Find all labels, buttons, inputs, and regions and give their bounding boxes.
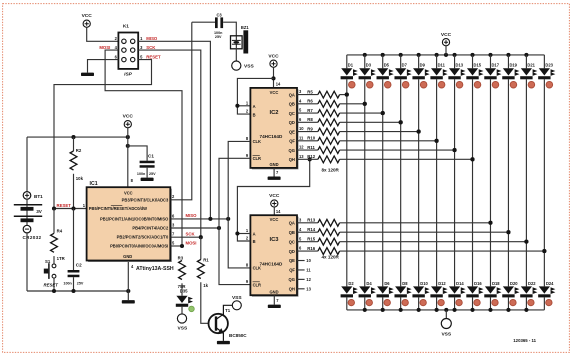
wire K1 pin 6 to ground bbox=[88, 60, 119, 73]
svg-text:D4: D4 bbox=[366, 281, 372, 286]
svg-text:VCC: VCC bbox=[268, 53, 279, 59]
LED D6 (red, bottom row) bbox=[377, 281, 394, 310]
ground (T1 emitter) bbox=[217, 341, 230, 344]
buzzer BZ1 (piezo) bbox=[231, 25, 250, 53]
svg-text:PB0/PCINT0/AIN0/OC0A/MOSI: PB0/PCINT0/AIN0/OC0A/MOSI bbox=[110, 244, 168, 249]
power VSS (D35) bbox=[177, 314, 188, 332]
svg-text:D12: D12 bbox=[438, 281, 446, 286]
svg-text:10: 10 bbox=[306, 258, 311, 263]
wire VCC rail (battery + to IC1 pin 8) bbox=[27, 135, 130, 148]
wire CLK bus (IC2 pin8 / IC3 pin8) bbox=[228, 141, 250, 268]
svg-text:PB3/PCINT3/CLKI/ADC3: PB3/PCINT3/CLKI/ADC3 bbox=[122, 197, 169, 202]
wire SCK net: K1 pin3 down to IC1 PB2 row bbox=[138, 50, 201, 237]
svg-text:R6: R6 bbox=[307, 99, 313, 104]
svg-text:D21: D21 bbox=[527, 63, 535, 68]
svg-text:T1: T1 bbox=[225, 308, 231, 313]
IC1 pin numbers bbox=[131, 178, 175, 269]
wire R12 to LED column 8 bbox=[340, 157, 475, 161]
svg-text:IC2: IC2 bbox=[269, 110, 278, 116]
LED D23 (red, top row) bbox=[538, 55, 555, 88]
svg-text:12: 12 bbox=[306, 277, 311, 282]
LED D15 (red, top row) bbox=[466, 55, 483, 88]
svg-text:D2: D2 bbox=[348, 281, 354, 286]
svg-text:QG: QG bbox=[289, 277, 295, 282]
wire VCC top bus bbox=[347, 53, 545, 57]
svg-text:74HC164D: 74HC164D bbox=[260, 134, 283, 139]
wire cascade IC2 QH to IC3 A/B bbox=[235, 157, 311, 241]
svg-text:D35: D35 bbox=[180, 288, 188, 293]
ground (IC2 pin 7) bbox=[268, 177, 281, 180]
svg-text:D16: D16 bbox=[474, 281, 482, 286]
LED D11 (red, top row) bbox=[430, 55, 447, 88]
op IC1 ATtiny13A-SSH bbox=[87, 181, 174, 272]
svg-text:R15: R15 bbox=[307, 236, 315, 241]
svg-text:D17: D17 bbox=[491, 63, 499, 68]
capacitor C2 100n 25V (reset) bbox=[63, 209, 84, 292]
resistor R12 120R bbox=[297, 154, 340, 163]
svg-text:D19: D19 bbox=[509, 63, 517, 68]
svg-text:25V: 25V bbox=[149, 172, 156, 176]
svg-text:R2: R2 bbox=[76, 148, 82, 153]
LED D10 (red, bottom row) bbox=[412, 281, 429, 310]
svg-text:VCC: VCC bbox=[270, 217, 279, 222]
switch S1 RESET (pushbutton) bbox=[44, 259, 59, 291]
power VCC (top left, ISP supply) bbox=[82, 13, 93, 27]
svg-text:1TR: 1TR bbox=[57, 256, 66, 261]
capacitor C3 100n 25V bbox=[192, 13, 223, 39]
svg-text:QH: QH bbox=[289, 287, 295, 292]
svg-text:R8: R8 bbox=[307, 117, 313, 122]
wire LED column 11 bbox=[524, 79, 528, 286]
resistor R8 120R bbox=[297, 117, 340, 126]
resistor R15 120R bbox=[297, 236, 340, 245]
svg-text:D5: D5 bbox=[384, 63, 390, 68]
LED D4 (red, bottom row) bbox=[359, 281, 376, 310]
LED D17 (red, top row) bbox=[484, 55, 501, 88]
wire IC1 GND pin 4 bbox=[127, 261, 129, 301]
svg-text:R9: R9 bbox=[307, 126, 313, 131]
svg-text:ATtiny13A-SSH: ATtiny13A-SSH bbox=[136, 266, 174, 272]
svg-text:QF: QF bbox=[289, 139, 295, 144]
wire RESET to IC1 pin 1 bbox=[52, 206, 87, 210]
wire R13 to LED column 9 bbox=[340, 221, 493, 225]
wire LED column 6 bbox=[435, 79, 439, 286]
wire VCC to K1 pin 2 bbox=[87, 27, 119, 41]
svg-text:QD: QD bbox=[289, 120, 295, 125]
svg-text:MOSI: MOSI bbox=[186, 241, 197, 246]
svg-text:QB: QB bbox=[289, 102, 295, 107]
wire CLR bus (IC2 pin9 / IC3 pin9) bbox=[219, 158, 250, 284]
svg-text:R3: R3 bbox=[178, 255, 184, 260]
ground (IC1 pin 4) bbox=[122, 300, 135, 303]
svg-text:R11: R11 bbox=[307, 145, 315, 150]
svg-text:8x 120R: 8x 120R bbox=[322, 168, 340, 173]
svg-text:VSS: VSS bbox=[244, 64, 254, 70]
svg-text:R10: R10 bbox=[307, 136, 315, 141]
LED D8 (red, bottom row) bbox=[394, 281, 411, 310]
svg-text:GND: GND bbox=[269, 290, 278, 295]
LED D35 (green indicator) bbox=[176, 288, 195, 314]
LED D16 (red, bottom row) bbox=[466, 281, 483, 310]
LED D21 (red, top row) bbox=[520, 55, 537, 88]
svg-text:CLR: CLR bbox=[253, 282, 261, 287]
svg-text:GND: GND bbox=[269, 162, 278, 167]
svg-text:C1: C1 bbox=[148, 154, 154, 159]
svg-text:A: A bbox=[253, 104, 256, 109]
wire IC1 PB2 (pin 7) to R1 bbox=[170, 235, 203, 239]
wire LED column 1 bbox=[345, 79, 349, 286]
svg-text:R16: R16 bbox=[307, 246, 315, 251]
resistor R14 120R bbox=[297, 227, 340, 236]
wire IC3 GND pin 7 bbox=[273, 295, 275, 304]
power VSS (T1 collector) bbox=[232, 295, 242, 310]
wire IC2 A/B tie to VCC bbox=[235, 78, 273, 114]
battery BT1 CR2032 3V bbox=[14, 137, 43, 291]
svg-text:3V: 3V bbox=[36, 209, 43, 214]
LED D19 (red, top row) bbox=[502, 55, 519, 88]
wire R7 to LED column 3 bbox=[340, 111, 385, 115]
svg-text:D18: D18 bbox=[492, 281, 500, 286]
LED D24 (red, bottom row) bbox=[538, 281, 555, 310]
svg-text:13: 13 bbox=[299, 154, 304, 159]
power VCC (LED matrix) bbox=[441, 32, 452, 55]
wire LED column 5 bbox=[417, 79, 421, 286]
wire VSS bottom bus bbox=[347, 308, 545, 312]
ground (K1 pin 6) bbox=[81, 73, 94, 76]
wire MOSI net: K1 pin4 down to IC1 PB0 row bbox=[105, 50, 182, 246]
resistor R7 120R bbox=[297, 108, 340, 117]
svg-text:14: 14 bbox=[276, 209, 281, 214]
svg-text:K1: K1 bbox=[123, 23, 129, 29]
svg-text:BT1: BT1 bbox=[34, 194, 43, 199]
svg-text:CLK: CLK bbox=[253, 139, 261, 144]
wire VCC symbol to IC1 pin 8 bbox=[127, 128, 129, 187]
svg-text:VCC: VCC bbox=[123, 114, 134, 120]
svg-text:QA: QA bbox=[289, 92, 295, 97]
wire R9 to LED column 5 bbox=[340, 130, 421, 134]
power VCC (IC3) bbox=[269, 193, 280, 207]
svg-text:11: 11 bbox=[299, 135, 304, 140]
svg-text:4x 120R: 4x 120R bbox=[322, 255, 340, 260]
svg-text:QC: QC bbox=[289, 111, 295, 116]
wire C3 to buzzer bbox=[223, 22, 236, 36]
svg-text:11: 11 bbox=[306, 268, 311, 273]
svg-text:CLR: CLR bbox=[253, 156, 261, 161]
svg-text:10: 10 bbox=[299, 126, 304, 131]
resistor R1 1k (T1 base) bbox=[197, 237, 209, 288]
resistor R16 120R bbox=[297, 246, 340, 255]
svg-text:120365 - 11: 120365 - 11 bbox=[513, 338, 536, 343]
LED D18 (red, bottom row) bbox=[484, 281, 501, 310]
LED D1 (red, top row) bbox=[341, 55, 358, 88]
svg-text:R1: R1 bbox=[203, 257, 209, 262]
svg-text:RESET: RESET bbox=[146, 55, 161, 60]
LED D14 (red, bottom row) bbox=[448, 281, 465, 310]
svg-text:12: 12 bbox=[299, 145, 304, 150]
LED D9 (red, top row) bbox=[412, 55, 429, 88]
wire IC1 PB4 (pin 3) to clear bus bbox=[170, 226, 221, 230]
svg-text:R4: R4 bbox=[57, 229, 63, 234]
svg-text:PB5/PCINT5/RESET/ADC0/dW: PB5/PCINT5/RESET/ADC0/dW bbox=[89, 206, 147, 211]
wire R10 to LED column 6 bbox=[340, 139, 439, 143]
LED D3 (red, top row) bbox=[359, 55, 376, 88]
svg-text:CR2032: CR2032 bbox=[23, 235, 42, 240]
resistor R5 120R bbox=[297, 89, 340, 98]
op IC3 74HC164D shift register bbox=[250, 215, 298, 297]
resistor R11 120R bbox=[297, 145, 340, 154]
power VCC (above IC1) bbox=[123, 114, 134, 128]
svg-text:D8: D8 bbox=[402, 281, 408, 286]
svg-text:VCC: VCC bbox=[270, 90, 279, 95]
resistor R10 120R bbox=[297, 136, 340, 145]
resistor R4 1TR (reset series) bbox=[51, 209, 66, 264]
ground (C1) bbox=[141, 178, 154, 181]
power VSS (LED matrix) bbox=[441, 310, 452, 337]
svg-text:PB1/PCINT1/AIN1/OC0B/INT0/MISO: PB1/PCINT1/AIN1/OC0B/INT0/MISO bbox=[100, 216, 169, 221]
ground (IC3 pin 7) bbox=[268, 305, 281, 308]
LED D12 (red, bottom row) bbox=[430, 281, 447, 310]
power VCC (IC2) bbox=[268, 53, 279, 67]
svg-text:BC850C: BC850C bbox=[229, 333, 247, 338]
svg-text:D20: D20 bbox=[510, 281, 518, 286]
wire IC1 PB0 (pin 5) to R3 bbox=[170, 244, 184, 248]
svg-text:D9: D9 bbox=[420, 63, 426, 68]
svg-text:B: B bbox=[253, 239, 256, 244]
svg-text:VCC: VCC bbox=[82, 13, 93, 19]
wire IC1 PB1 (pin 6) to shift clock bus bbox=[170, 217, 230, 221]
svg-text:R12: R12 bbox=[307, 154, 315, 159]
svg-text:PB4/PCINT4/ADC2: PB4/PCINT4/ADC2 bbox=[132, 226, 169, 231]
svg-text:74HC164D: 74HC164D bbox=[260, 262, 283, 267]
resistor R6 120R bbox=[297, 99, 340, 108]
svg-text:D7: D7 bbox=[402, 63, 408, 68]
power VSS (buzzer) bbox=[232, 61, 255, 70]
wire R5 to LED column 1 bbox=[340, 93, 349, 97]
IC2 pin numbers bbox=[246, 81, 304, 174]
wire RESET net: K1 pin5 to reset rail bbox=[54, 60, 152, 209]
wire R11 to LED column 7 bbox=[340, 148, 457, 152]
svg-text:VCC: VCC bbox=[441, 32, 452, 38]
wire LED column 7 bbox=[453, 79, 457, 286]
svg-text:14: 14 bbox=[276, 81, 281, 86]
wire IC2 pin 14 supply bbox=[271, 67, 275, 88]
svg-text:D14: D14 bbox=[456, 281, 464, 286]
svg-text:R14: R14 bbox=[307, 227, 315, 232]
wire buzzer to VSS bbox=[235, 49, 237, 61]
svg-text:VCC: VCC bbox=[124, 191, 133, 196]
svg-text:D3: D3 bbox=[366, 63, 372, 68]
svg-text:QG: QG bbox=[289, 148, 295, 153]
resistor R9 120R bbox=[297, 126, 340, 135]
svg-text:C2: C2 bbox=[76, 263, 82, 268]
svg-text:MISO: MISO bbox=[186, 213, 198, 218]
svg-text:RESET: RESET bbox=[57, 203, 72, 208]
svg-text:GND: GND bbox=[123, 254, 132, 259]
wire LED column 9 bbox=[488, 79, 492, 286]
svg-text:VSS: VSS bbox=[178, 326, 188, 332]
svg-text:QE: QE bbox=[289, 258, 295, 263]
wire R16 to LED column 12 bbox=[340, 249, 547, 253]
svg-text:S1: S1 bbox=[45, 259, 51, 264]
svg-text:D1: D1 bbox=[348, 63, 354, 68]
resistor R3 75R bbox=[178, 255, 187, 296]
svg-text:QA: QA bbox=[289, 221, 295, 226]
svg-text:PB2/PCINT2/SCK/ADC1/T0: PB2/PCINT2/SCK/ADC1/T0 bbox=[117, 235, 169, 240]
wire LED column 8 bbox=[470, 79, 474, 286]
wire R1 to T1 base bbox=[201, 282, 216, 323]
svg-text:RESET: RESET bbox=[44, 283, 59, 288]
svg-text:VSS: VSS bbox=[232, 295, 242, 301]
svg-text:10k: 10k bbox=[76, 176, 84, 181]
op IC2 74HC164D shift register bbox=[250, 88, 298, 169]
wire LED column 12 bbox=[542, 79, 546, 286]
svg-text:D13: D13 bbox=[456, 63, 464, 68]
wire LED column 10 bbox=[506, 79, 510, 286]
wire MISO net: K1 pin1 down to IC1 PB1 row bbox=[138, 41, 210, 219]
svg-text:VSS: VSS bbox=[441, 331, 451, 337]
resistor R2 10k (reset pull-up) bbox=[70, 137, 83, 208]
LED D22 (red, bottom row) bbox=[520, 281, 537, 310]
svg-text:A: A bbox=[253, 232, 256, 237]
wire ground rail (battery - ) bbox=[27, 289, 130, 293]
LED D20 (red, bottom row) bbox=[502, 281, 519, 310]
capacitor C1 100n 25V bbox=[128, 146, 156, 178]
svg-text:SCK: SCK bbox=[186, 232, 196, 237]
svg-text:QF: QF bbox=[289, 268, 295, 273]
svg-text:D11: D11 bbox=[438, 63, 446, 68]
svg-text:R13: R13 bbox=[307, 218, 315, 223]
svg-text:ISP: ISP bbox=[124, 71, 133, 77]
svg-text:100n: 100n bbox=[137, 172, 146, 176]
LED D7 (red, top row) bbox=[394, 55, 411, 88]
K1 pin numbers bbox=[115, 36, 143, 59]
svg-text:MISO: MISO bbox=[146, 36, 158, 41]
svg-text:13: 13 bbox=[306, 287, 311, 292]
svg-text:CLK: CLK bbox=[253, 266, 261, 271]
svg-text:1k: 1k bbox=[203, 283, 208, 288]
IC3 pin numbers bbox=[246, 209, 312, 303]
svg-text:IC1: IC1 bbox=[90, 181, 98, 187]
svg-text:BZ1: BZ1 bbox=[241, 25, 249, 30]
wire R14 to LED column 10 bbox=[340, 230, 511, 234]
svg-text:VCC: VCC bbox=[269, 193, 280, 199]
svg-text:D22: D22 bbox=[528, 281, 536, 286]
svg-text:D10: D10 bbox=[420, 281, 428, 286]
wire LED column 3 bbox=[381, 79, 385, 286]
svg-text:MOSI: MOSI bbox=[99, 45, 110, 50]
svg-text:C3: C3 bbox=[216, 13, 222, 18]
wire LED column 4 bbox=[399, 79, 403, 286]
wire IC2 GND pin 7 bbox=[273, 168, 275, 177]
wire IC1 PB3 (pin 2) to C3 bbox=[170, 22, 192, 200]
wire R6 to LED column 2 bbox=[340, 102, 367, 106]
svg-text:IC3: IC3 bbox=[269, 237, 279, 243]
wire LED column 2 bbox=[363, 79, 367, 286]
resistor R13 120R bbox=[297, 218, 340, 227]
wire R8 to LED column 4 bbox=[340, 120, 403, 124]
LED D5 (red, top row) bbox=[377, 55, 394, 88]
svg-text:QB: QB bbox=[289, 230, 295, 235]
wire IC3 pin 14 supply bbox=[273, 207, 275, 215]
svg-text:QC: QC bbox=[289, 239, 295, 244]
wire R15 to LED column 11 bbox=[340, 240, 529, 244]
svg-text:R5: R5 bbox=[307, 89, 313, 94]
svg-text:D23: D23 bbox=[545, 63, 553, 68]
LED D13 (red, top row) bbox=[448, 55, 465, 88]
svg-text:SCK: SCK bbox=[146, 45, 156, 50]
LED D2 (red, bottom row) bbox=[341, 281, 358, 310]
svg-text:QH: QH bbox=[289, 157, 295, 162]
connector K1 (ISP header) bbox=[118, 23, 138, 77]
svg-text:D6: D6 bbox=[384, 281, 390, 286]
svg-text:25V: 25V bbox=[215, 35, 222, 39]
transistor T1 BC850C bbox=[209, 305, 248, 341]
svg-text:25V: 25V bbox=[77, 282, 84, 286]
svg-text:D15: D15 bbox=[474, 63, 482, 68]
svg-text:QD: QD bbox=[289, 249, 295, 254]
svg-text:D24: D24 bbox=[546, 281, 554, 286]
svg-text:R7: R7 bbox=[307, 108, 313, 113]
IC3 unused output stubs QE-QH bbox=[297, 261, 305, 289]
svg-text:100n: 100n bbox=[63, 282, 72, 286]
svg-text:B: B bbox=[253, 112, 256, 117]
svg-text:QE: QE bbox=[289, 129, 295, 134]
